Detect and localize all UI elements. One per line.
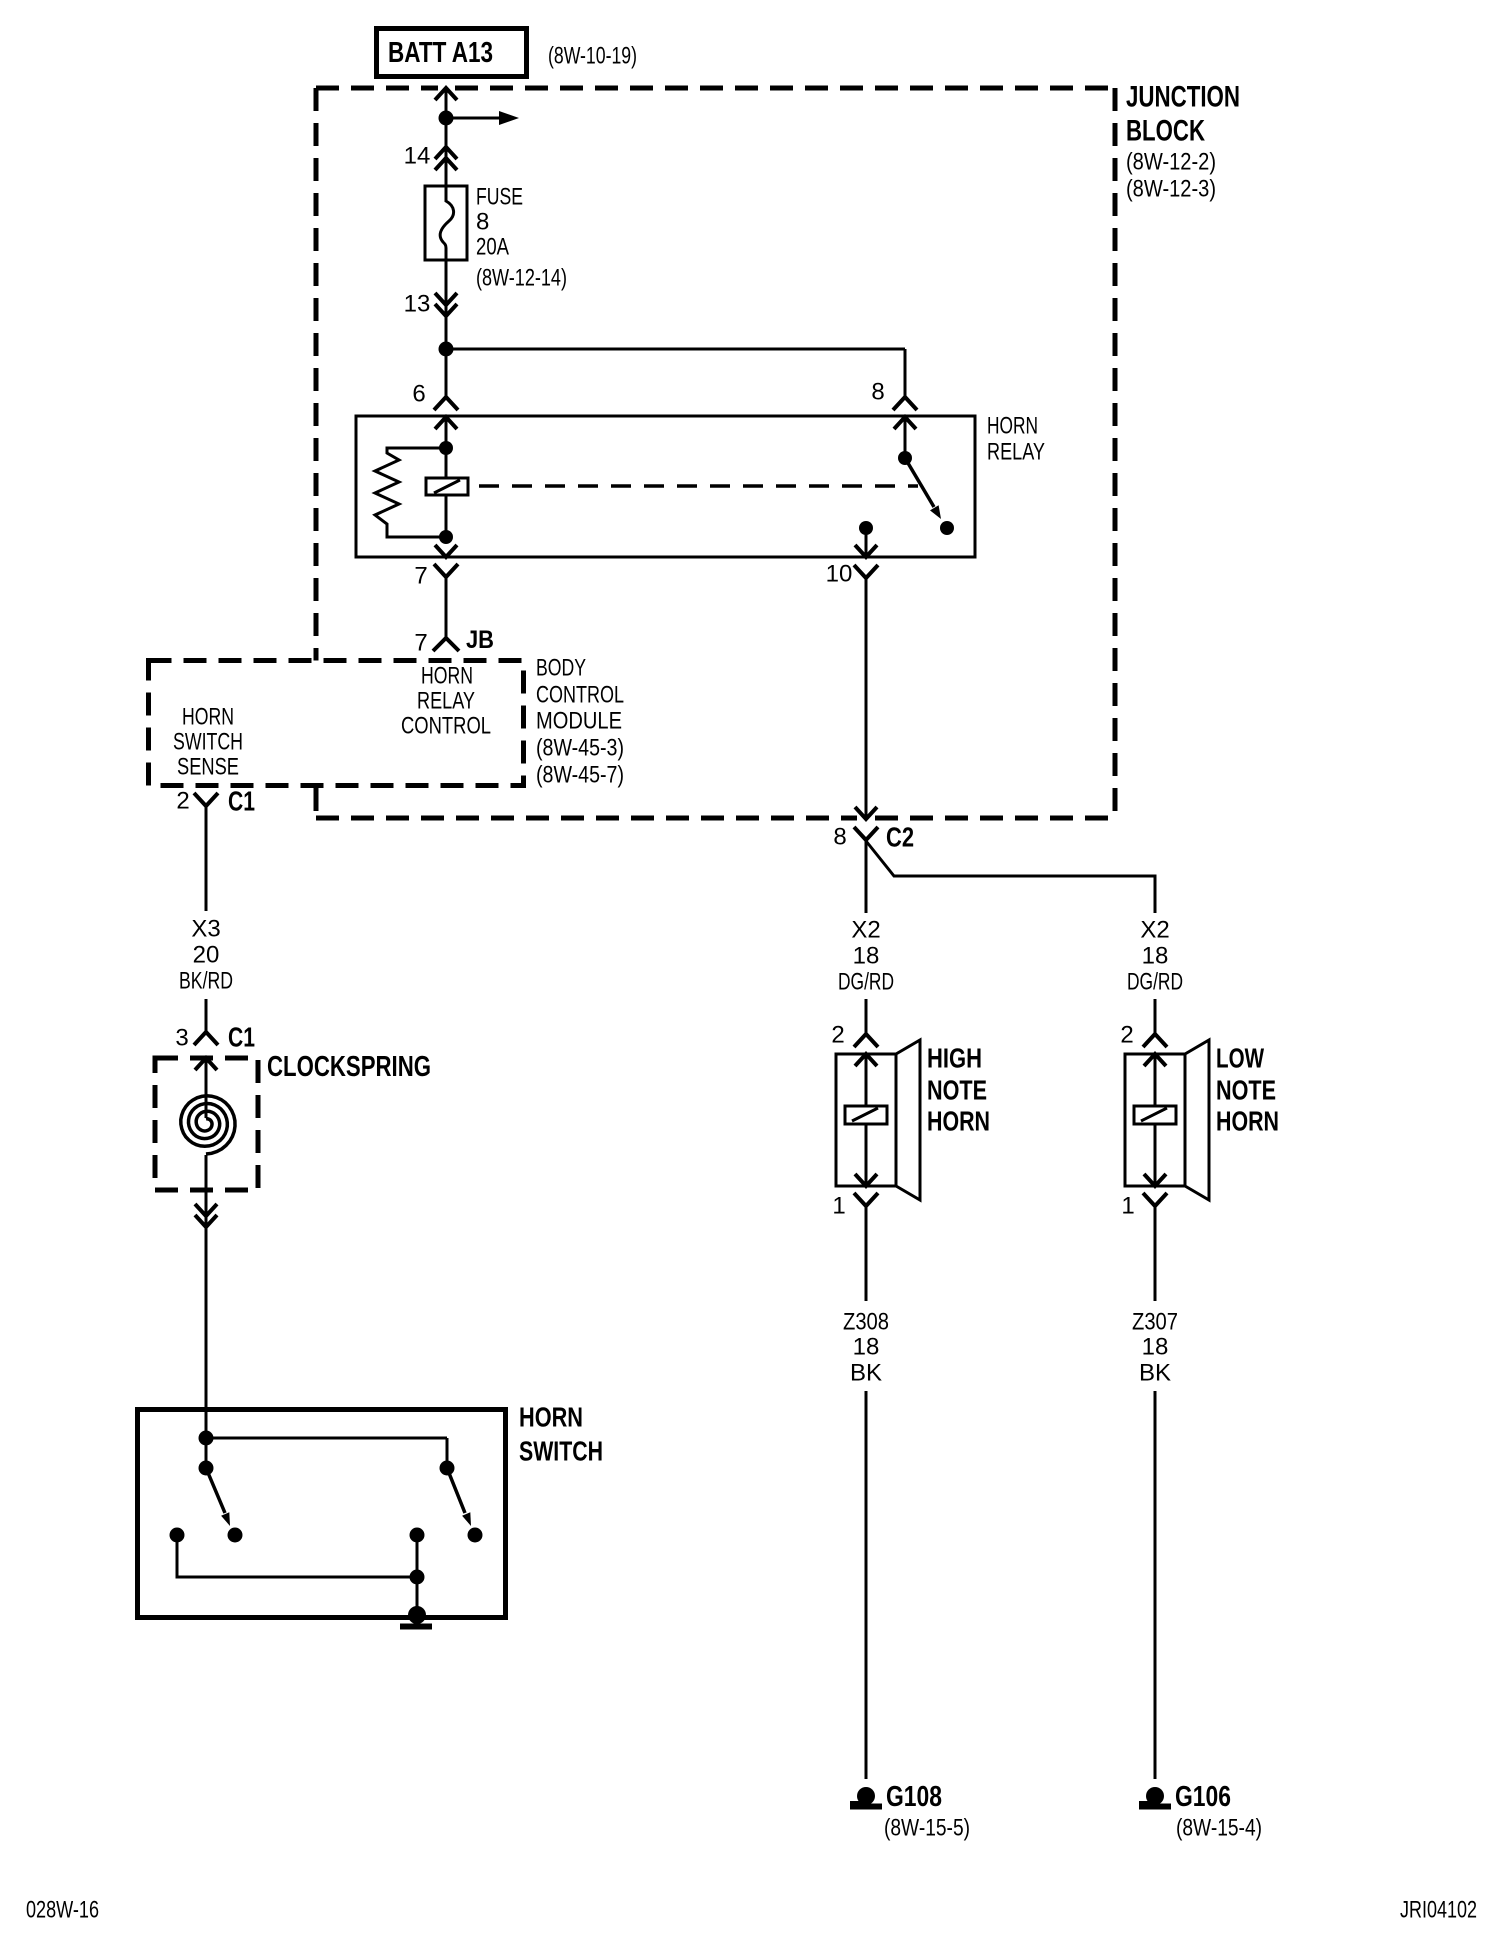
svg-text:RELAY: RELAY xyxy=(417,688,475,715)
svg-text:(8W-45-7): (8W-45-7) xyxy=(536,762,624,789)
svg-text:1: 1 xyxy=(832,1193,845,1220)
svg-text:(8W-15-4): (8W-15-4) xyxy=(1176,1815,1262,1842)
svg-text:7: 7 xyxy=(414,630,427,657)
svg-text:6: 6 xyxy=(412,381,425,408)
svg-text:(8W-15-5): (8W-15-5) xyxy=(884,1815,970,1842)
svg-text:SWITCH: SWITCH xyxy=(519,1436,603,1467)
svg-text:MODULE: MODULE xyxy=(536,708,622,735)
svg-text:G106: G106 xyxy=(1175,1781,1231,1813)
svg-text:HORN: HORN xyxy=(1216,1106,1279,1137)
svg-text:HORN: HORN xyxy=(987,413,1038,440)
svg-text:BK: BK xyxy=(850,1360,882,1387)
svg-text:(8W-10-19): (8W-10-19) xyxy=(548,43,637,70)
svg-text:8: 8 xyxy=(833,824,846,851)
svg-text:CONTROL: CONTROL xyxy=(536,682,624,709)
svg-text:1: 1 xyxy=(1121,1193,1134,1220)
svg-text:X2: X2 xyxy=(851,917,880,944)
svg-text:NOTE: NOTE xyxy=(927,1075,987,1106)
svg-text:NOTE: NOTE xyxy=(1216,1075,1276,1106)
svg-text:13: 13 xyxy=(404,291,431,318)
svg-text:C1: C1 xyxy=(228,786,255,817)
svg-text:C1: C1 xyxy=(228,1022,255,1053)
svg-text:BK/RD: BK/RD xyxy=(179,968,233,995)
svg-text:18: 18 xyxy=(853,1334,880,1361)
svg-text:(8W-12-14): (8W-12-14) xyxy=(476,265,567,292)
svg-text:JB: JB xyxy=(466,626,494,654)
svg-text:(8W-12-2): (8W-12-2) xyxy=(1126,149,1216,176)
svg-text:Z308: Z308 xyxy=(843,1309,889,1336)
svg-text:CLOCKSPRING: CLOCKSPRING xyxy=(267,1051,431,1083)
svg-text:BATT A13: BATT A13 xyxy=(388,37,493,69)
svg-text:JUNCTION: JUNCTION xyxy=(1126,81,1240,114)
svg-text:LOW: LOW xyxy=(1216,1043,1264,1074)
svg-text:3: 3 xyxy=(175,1025,188,1052)
svg-text:BK: BK xyxy=(1139,1360,1171,1387)
svg-text:BODY: BODY xyxy=(536,655,586,682)
svg-text:C2: C2 xyxy=(886,822,914,853)
svg-text:SENSE: SENSE xyxy=(177,754,239,781)
svg-text:RELAY: RELAY xyxy=(987,439,1045,466)
svg-text:SWITCH: SWITCH xyxy=(173,729,243,756)
svg-text:18: 18 xyxy=(1142,1334,1169,1361)
svg-text:X2: X2 xyxy=(1140,917,1169,944)
svg-text:20A: 20A xyxy=(476,234,509,261)
svg-text:HORN: HORN xyxy=(927,1106,990,1137)
svg-text:HORN: HORN xyxy=(421,663,473,690)
svg-text:HORN: HORN xyxy=(519,1402,583,1433)
svg-text:2: 2 xyxy=(1120,1022,1133,1049)
svg-text:CONTROL: CONTROL xyxy=(401,713,491,740)
svg-text:JRI04102: JRI04102 xyxy=(1400,1897,1477,1924)
svg-text:DG/RD: DG/RD xyxy=(838,969,894,996)
svg-text:HORN: HORN xyxy=(182,704,234,731)
svg-text:028W-16: 028W-16 xyxy=(26,1897,99,1924)
svg-text:X3: X3 xyxy=(191,916,220,943)
svg-text:2: 2 xyxy=(176,788,189,815)
svg-text:Z307: Z307 xyxy=(1132,1309,1178,1336)
svg-text:8: 8 xyxy=(871,379,884,406)
svg-text:DG/RD: DG/RD xyxy=(1127,969,1183,996)
svg-text:10: 10 xyxy=(826,561,853,588)
svg-text:14: 14 xyxy=(404,143,431,170)
svg-text:(8W-45-3): (8W-45-3) xyxy=(536,735,624,762)
svg-text:HIGH: HIGH xyxy=(927,1043,982,1074)
svg-text:7: 7 xyxy=(414,563,427,590)
svg-text:2: 2 xyxy=(831,1022,844,1049)
svg-text:BLOCK: BLOCK xyxy=(1126,115,1205,148)
svg-text:(8W-12-3): (8W-12-3) xyxy=(1126,176,1216,203)
svg-text:18: 18 xyxy=(853,943,880,970)
svg-text:8: 8 xyxy=(476,209,489,236)
svg-text:20: 20 xyxy=(193,942,220,969)
svg-text:FUSE: FUSE xyxy=(476,184,523,211)
svg-text:18: 18 xyxy=(1142,943,1169,970)
svg-text:G108: G108 xyxy=(886,1781,942,1813)
